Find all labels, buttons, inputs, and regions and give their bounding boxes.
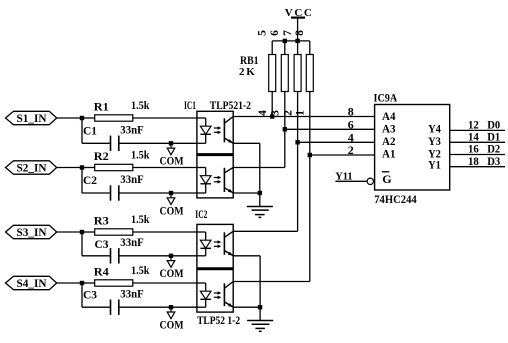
svg-text:Y11: Y11 — [335, 171, 353, 182]
phototransistor IC2a — [224, 231, 233, 255]
pin 5 RB1 — [256, 30, 268, 36]
svg-text:1.5k: 1.5k — [131, 148, 150, 162]
junction node net2 — [308, 153, 312, 157]
junction VCC bus pin7 — [295, 39, 299, 43]
pin 2 RB1 — [282, 110, 294, 116]
svg-text:33nF: 33nF — [120, 235, 143, 249]
pin label Y1 U3 — [428, 158, 441, 172]
pin 12 U3 output — [468, 120, 479, 132]
wire net 2: to U3 A1 — [310, 154, 375, 156]
pin 7 RB1 — [282, 30, 294, 36]
svg-text:C3: C3 — [83, 287, 97, 301]
pin 4 U3 input — [348, 130, 354, 144]
ground COM at S4_IN row — [160, 305, 184, 332]
wire IC1b emitter — [233, 192, 260, 194]
wire S4_IN to junction — [57, 282, 82, 284]
wire S1_IN to junction — [57, 117, 82, 119]
svg-text:2: 2 — [348, 143, 354, 157]
svg-text:IC2: IC2 — [195, 207, 207, 221]
light arrows IC1b — [214, 176, 222, 184]
net label D2 — [487, 144, 500, 156]
svg-text:1.5k: 1.5k — [131, 263, 150, 277]
junction node S4_IN — [80, 281, 84, 285]
pin 18 U3 output — [468, 156, 479, 168]
wire R1 to optocoupler anode — [133, 117, 197, 119]
pin 14 U3 output — [468, 131, 479, 143]
port S2_IN — [6, 161, 57, 175]
svg-text:4: 4 — [257, 110, 269, 116]
svg-text:R4: R4 — [94, 265, 109, 279]
wire S2_IN to junction — [57, 167, 82, 169]
wire C2 to optocoupler cathode — [119, 192, 197, 194]
junction node net4 — [295, 140, 299, 144]
svg-text:R3: R3 — [94, 214, 109, 228]
wire junction down to C3 — [82, 283, 111, 307]
net label D3 — [487, 156, 500, 168]
pin label A3 U3 — [382, 122, 396, 136]
svg-text:TLP52 1-2: TLP52 1-2 — [197, 313, 240, 327]
LED IC2a — [197, 232, 211, 256]
resistor R4 1.5k — [94, 263, 150, 286]
optocoupler IC2 TLP521-2 — [195, 207, 240, 327]
svg-text:C3: C3 — [95, 237, 109, 251]
LED IC1b — [197, 168, 211, 194]
pin 16 U3 output — [468, 144, 479, 156]
pin 1 RB1 — [295, 110, 307, 116]
svg-text:COM: COM — [160, 154, 184, 168]
wire R2 to optocoupler anode — [133, 167, 197, 169]
junction VCC bus pin6 — [283, 39, 287, 43]
svg-text:7: 7 — [282, 30, 294, 36]
svg-text:33nF: 33nF — [120, 286, 143, 300]
svg-text:IC9A: IC9A — [374, 91, 398, 105]
LED IC2b — [197, 283, 211, 307]
wire C3 to optocoupler cathode — [119, 306, 197, 308]
port S1_IN — [6, 111, 57, 125]
svg-text:33nF: 33nF — [120, 123, 143, 137]
wire junction down to C2 — [82, 168, 111, 194]
wire junction to R2 — [82, 167, 95, 169]
net label D0 — [487, 120, 500, 132]
wire VCC bus — [272, 40, 310, 42]
svg-text:D2: D2 — [487, 144, 500, 156]
svg-text:12: 12 — [468, 120, 479, 132]
ground GND2 — [247, 321, 273, 332]
pin 6 RB1 — [269, 30, 281, 36]
power VCC — [285, 7, 314, 41]
ground COM at S3_IN row — [160, 254, 184, 281]
port S4_IN — [6, 276, 57, 290]
svg-text:R2: R2 — [94, 149, 109, 163]
phototransistor IC1a — [224, 117, 233, 144]
resistor R1 1.5k — [94, 98, 150, 121]
svg-text:6: 6 — [348, 117, 354, 131]
wire junction down to C3 — [82, 232, 111, 256]
wire S3_IN to junction — [57, 231, 82, 233]
net label D1 — [487, 131, 500, 143]
ground COM at S2_IN row — [160, 191, 184, 218]
wire net 6: to U3 A3 — [285, 128, 375, 130]
wire junction to R1 — [82, 117, 95, 119]
pin 2 U3 input — [348, 143, 354, 157]
port S3_IN — [6, 225, 57, 239]
svg-text:D1: D1 — [487, 131, 500, 143]
svg-text:1.5k: 1.5k — [131, 212, 150, 226]
capacitor C2 33nF — [83, 172, 144, 201]
wire net D3 from U3 pin 18 — [450, 166, 505, 168]
wire IC2a emitter to ground — [233, 256, 260, 321]
capacitor C1 33nF — [83, 123, 144, 152]
junction node net6 — [283, 127, 287, 131]
svg-text:8: 8 — [294, 30, 306, 36]
svg-text:6: 6 — [269, 30, 281, 36]
optocoupler IC1 TLP521-2 — [184, 98, 251, 198]
capacitor C3 33nF — [95, 235, 144, 264]
wire IC1a emitter to ground — [233, 143, 260, 206]
inversion bubble U3 G — [367, 178, 373, 184]
junction node S2_IN — [80, 165, 84, 169]
svg-text:S2_IN: S2_IN — [17, 161, 47, 175]
resistor R2 1.5k — [94, 148, 150, 171]
pin label Y3 U3 — [428, 134, 441, 148]
junction node S1_IN — [80, 116, 84, 120]
phototransistor IC1b — [224, 168, 233, 193]
svg-text:1.5k: 1.5k — [131, 98, 150, 112]
wire net D1 from U3 pin 14 — [450, 141, 505, 143]
wire IC2b emitter — [233, 306, 260, 308]
light arrows IC2a — [214, 240, 222, 248]
junction node net8 — [270, 114, 274, 118]
pin 3 RB1 — [270, 110, 282, 116]
svg-text:1: 1 — [295, 110, 307, 116]
svg-text:C1: C1 — [83, 124, 97, 138]
pin label A2 U3 — [382, 134, 396, 148]
wire RB1 pin2 column to IC2a collector — [233, 92, 297, 232]
svg-text:18: 18 — [468, 156, 479, 168]
svg-text:C2: C2 — [83, 173, 97, 187]
svg-text:14: 14 — [468, 131, 479, 143]
pin label A4 U3 — [382, 109, 396, 123]
wire net D2 from U3 pin 16 — [450, 154, 505, 156]
ground GND1 — [247, 207, 273, 218]
junction node S3_IN — [80, 230, 84, 234]
resistor network RB1 2K — [239, 41, 313, 92]
wire junction to R4 — [82, 282, 95, 284]
pin label A1 U3 — [382, 146, 396, 160]
svg-text:16: 16 — [468, 144, 479, 156]
wire RB1 pin3 column to IC1b collector — [233, 92, 285, 168]
wire net 8: IC1a collector to U3 A4 — [233, 116, 374, 118]
pin 6 U3 input — [348, 117, 354, 131]
pin label G-bar U3 — [382, 172, 392, 186]
svg-text:Y1: Y1 — [428, 158, 441, 172]
svg-text:D0: D0 — [487, 120, 500, 132]
wire R3 to optocoupler anode — [133, 231, 197, 233]
svg-text:D3: D3 — [487, 156, 500, 168]
pin 8 RB1 — [294, 30, 306, 36]
ground COM at S1_IN row — [160, 141, 184, 168]
wire RB1 pin4 column — [271, 92, 273, 117]
svg-text:COM: COM — [160, 203, 184, 217]
junction IC1 emitters — [258, 191, 262, 195]
light arrows IC1a — [214, 126, 222, 134]
svg-text:TLP521-2: TLP521-2 — [210, 98, 251, 112]
svg-text:5: 5 — [256, 30, 268, 36]
svg-text:2K: 2K — [239, 66, 257, 78]
light arrows IC2b — [214, 291, 222, 299]
svg-text:COM: COM — [160, 318, 184, 332]
svg-text:S3_IN: S3_IN — [17, 225, 47, 239]
svg-text:74HC244: 74HC244 — [374, 192, 417, 206]
svg-text:IC1: IC1 — [184, 98, 196, 112]
wire net D0 from U3 pin 12 — [450, 129, 505, 131]
wire junction to R3 — [82, 231, 95, 233]
wire C3 to optocoupler cathode — [119, 255, 197, 257]
wire junction down to C1 — [82, 118, 111, 143]
LED IC1a — [197, 118, 211, 143]
pin 4 RB1 — [257, 110, 269, 116]
svg-text:A1: A1 — [382, 146, 396, 160]
pin label Y2 U3 — [428, 146, 441, 160]
svg-text:RB1: RB1 — [240, 53, 259, 67]
svg-text:33nF: 33nF — [120, 172, 143, 186]
buffer U3 IC9A 74HC244 — [374, 91, 450, 207]
svg-text:G: G — [382, 172, 391, 186]
svg-text:R1: R1 — [94, 100, 109, 114]
capacitor C3 33nF — [83, 286, 144, 315]
wire C1 to optocoupler cathode — [119, 142, 197, 144]
resistor R3 1.5k — [94, 212, 150, 235]
wire net 4: to U3 A2 — [298, 141, 375, 143]
pin 8 U3 input — [348, 105, 354, 119]
svg-text:S4_IN: S4_IN — [17, 276, 47, 290]
junction IC2 emitters — [258, 305, 262, 309]
wire RB1 pin1 column to IC2b collector — [233, 92, 310, 282]
svg-text:COM: COM — [160, 266, 184, 280]
svg-text:S1_IN: S1_IN — [17, 111, 47, 125]
net Y11 — [335, 171, 367, 182]
pin label Y4 U3 — [428, 122, 441, 136]
wire R4 to optocoupler anode — [133, 282, 197, 284]
phototransistor IC2b — [224, 282, 233, 307]
